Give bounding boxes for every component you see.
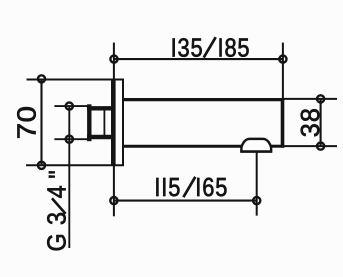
svg-text:38: 38	[297, 107, 325, 137]
label G 3/4 slash	[52, 198, 66, 213]
dim 38 extension top	[284, 98, 337, 100]
svg-text:70: 70	[12, 105, 41, 139]
aerator collar bottom	[240, 150, 272, 153]
label 135/185 slash	[204, 37, 216, 57]
leader line down to G 3/4 label	[68, 139, 70, 248]
dim 135/185 left marker	[110, 56, 117, 63]
spout body top edge	[124, 98, 284, 101]
wall flange plate (right edge)	[122, 80, 124, 166]
svg-text:I35: I35	[171, 34, 204, 63]
flange top edge + extension line to 70-dim	[27, 79, 125, 81]
extension line outlet down	[256, 152, 258, 216]
aerator dome	[241, 139, 271, 148]
spout tip face	[281, 98, 285, 148]
spout body bottom edge (right of outlet)	[271, 145, 284, 148]
svg-text:I65: I65	[195, 173, 228, 202]
pipe end face	[68, 106, 70, 139]
svg-text:II5: II5	[154, 173, 181, 202]
extension line spout tip up	[282, 43, 284, 98]
connector nut top edge	[87, 106, 111, 110]
marker circle pipe top	[66, 103, 73, 110]
svg-text:": "	[45, 170, 73, 178]
label 115/165 slash	[183, 177, 195, 197]
dim 70 top marker	[38, 75, 45, 82]
label 135/185	[171, 34, 251, 63]
svg-text:4: 4	[44, 185, 72, 198]
wall flange plate (left thick wall-face edge)	[111, 80, 116, 166]
dim 135/185 right marker	[279, 56, 286, 63]
dim 38 bottom marker	[317, 143, 324, 150]
dim 115/165 right marker	[253, 197, 260, 204]
label G 3/4" (rotated)	[44, 185, 72, 251]
aerator collar left edge	[240, 146, 242, 151]
extension line flange down	[113, 166, 115, 216]
extension line flange face up	[113, 43, 115, 80]
svg-text:I85: I85	[218, 34, 251, 63]
G3/4 pipe thread bottom line	[54, 138, 88, 140]
dim 135/185 line	[114, 58, 283, 60]
connector nut bottom edge	[87, 135, 111, 139]
svg-text:G 3: G 3	[44, 211, 72, 251]
label G 3/4 inch quote mark (rotated)	[45, 170, 73, 178]
dim 70 bottom marker	[38, 162, 45, 169]
label 115/165	[154, 173, 228, 202]
dim 115/165 line	[114, 200, 257, 202]
aerator collar right edge	[270, 146, 272, 151]
dim 115/165 left marker	[110, 197, 117, 204]
dim 38 line	[320, 99, 322, 146]
dim 70 line	[40, 79, 42, 165]
dim 38 top marker	[317, 95, 324, 102]
marker circle pipe bottom	[66, 136, 73, 143]
flange bottom edge + extension line to 70-dim	[26, 164, 124, 166]
spout body bottom edge (left of outlet)	[124, 145, 242, 148]
connector nut left edge	[87, 104, 91, 141]
label 38 (rotated)	[297, 107, 325, 137]
dim 38 extension bottom	[284, 145, 337, 147]
nut inner step line	[103, 111, 105, 136]
G3/4 pipe thread top line	[54, 105, 88, 107]
label 70 (rotated)	[12, 105, 41, 139]
